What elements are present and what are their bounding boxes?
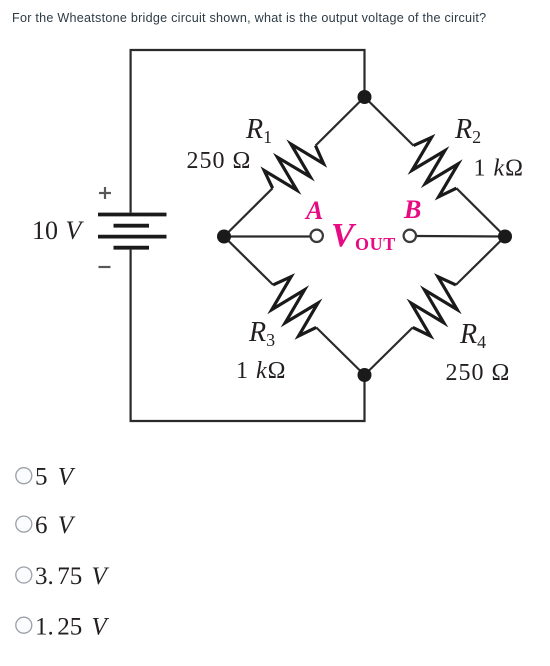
node junction left bbox=[217, 230, 231, 244]
svg-text:1.25 V: 1.25 V bbox=[35, 614, 110, 641]
terminal A open circle bbox=[311, 230, 323, 242]
battery minus sign bbox=[99, 266, 111, 268]
svg-text:R4: R4 bbox=[459, 319, 486, 352]
battery plus sign bbox=[99, 187, 111, 199]
resistor R3 zigzag bbox=[272, 277, 318, 336]
question title text bbox=[12, 10, 486, 26]
wire node B horizontal bbox=[416, 235, 505, 238]
wire diagonal bottom-right lead bbox=[456, 237, 505, 285]
battery V1 plate short bottom bbox=[114, 246, 150, 250]
node junction top bbox=[358, 90, 372, 104]
wire bottom rail bbox=[131, 250, 365, 421]
battery V1 plate short bbox=[114, 224, 150, 228]
svg-text:1 kΩ: 1 kΩ bbox=[236, 358, 287, 384]
svg-text:5 V: 5 V bbox=[35, 464, 76, 491]
svg-text:3.75 V: 3.75 V bbox=[35, 563, 110, 590]
wire node A horizontal bbox=[224, 235, 310, 237]
battery V1 plate long bottom bbox=[98, 235, 167, 239]
radio option 3 circle bbox=[16, 567, 32, 583]
svg-text:6 V: 6 V bbox=[35, 512, 76, 539]
svg-text:B: B bbox=[403, 195, 421, 224]
wire diagonal top-right lead bbox=[365, 97, 414, 146]
svg-text:R2: R2 bbox=[454, 114, 481, 147]
svg-text:V: V bbox=[331, 217, 356, 254]
svg-text:R1: R1 bbox=[245, 114, 272, 147]
radio option 4 circle bbox=[16, 617, 32, 633]
wire top rail bbox=[131, 50, 365, 213]
svg-text:R3: R3 bbox=[248, 317, 275, 350]
wire diagonal top-left lead bbox=[316, 97, 365, 146]
radio option 2 circle bbox=[16, 516, 32, 532]
svg-text:OUT: OUT bbox=[355, 234, 396, 254]
svg-text:A: A bbox=[304, 196, 323, 225]
node junction bottom bbox=[358, 368, 372, 382]
wire diagonal bottom-left lead bbox=[224, 237, 273, 285]
radio option 1 circle bbox=[16, 468, 32, 484]
resistor R4 zigzag bbox=[411, 277, 457, 336]
terminal B open circle bbox=[404, 230, 416, 242]
svg-text:250 Ω: 250 Ω bbox=[446, 360, 511, 386]
node junction right bbox=[498, 230, 512, 244]
battery V1 plate long top bbox=[98, 213, 167, 217]
svg-text:10 V: 10 V bbox=[32, 216, 85, 245]
resistor R1 zigzag bbox=[264, 144, 323, 190]
resistor R2 zigzag bbox=[412, 137, 458, 196]
svg-text:250 Ω: 250 Ω bbox=[187, 148, 252, 174]
svg-text:1 kΩ: 1 kΩ bbox=[474, 156, 525, 182]
